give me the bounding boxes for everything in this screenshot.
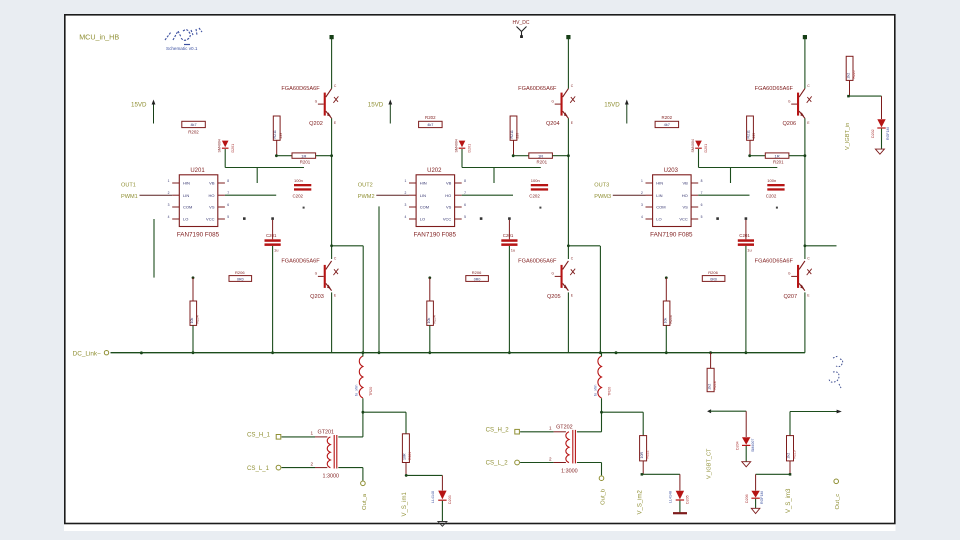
- svg-text:7: 7: [701, 191, 703, 195]
- svg-text:10k: 10k: [663, 318, 667, 324]
- svg-text:OUT1: OUT1: [121, 183, 136, 189]
- svg-text:VCC: VCC: [679, 217, 688, 222]
- svg-text:5: 5: [701, 215, 703, 219]
- svg-text:1:3000: 1:3000: [323, 474, 340, 480]
- svg-text:V_IGBT_CT: V_IGBT_CT: [706, 448, 712, 479]
- svg-text:R219: R219: [792, 450, 796, 458]
- svg-text:10k: 10k: [427, 318, 431, 324]
- svg-text:FAN7190 F085: FAN7190 F085: [177, 232, 220, 239]
- svg-text:R204: R204: [669, 315, 673, 323]
- svg-text:VS: VS: [682, 205, 688, 210]
- svg-text:V_IGBT_in: V_IGBT_in: [845, 123, 851, 150]
- svg-text:R206: R206: [472, 270, 482, 275]
- svg-text:1: 1: [310, 431, 313, 436]
- svg-text:SM4004: SM4004: [218, 139, 222, 152]
- svg-text:5: 5: [464, 215, 466, 219]
- svg-text:15VD: 15VD: [604, 102, 620, 109]
- svg-text:Out_c: Out_c: [835, 494, 841, 510]
- svg-text:C201: C201: [266, 233, 277, 238]
- svg-text:LO: LO: [420, 217, 425, 222]
- svg-text:MCU_in_HB: MCU_in_HB: [79, 33, 119, 42]
- svg-text:VB: VB: [209, 181, 215, 186]
- svg-text:CS_H_1: CS_H_1: [247, 432, 271, 439]
- svg-text:DC_Link−: DC_Link−: [73, 351, 102, 358]
- svg-text:C201: C201: [503, 233, 514, 238]
- svg-text:to_xfm: to_xfm: [593, 385, 597, 396]
- svg-text:R211: R211: [273, 130, 277, 138]
- svg-text:HIN: HIN: [420, 181, 427, 186]
- svg-text:C202: C202: [293, 193, 304, 198]
- svg-text:R201: R201: [300, 160, 311, 165]
- svg-text:FAN7190 F085: FAN7190 F085: [414, 232, 457, 239]
- svg-text:to_xfm: to_xfm: [355, 385, 359, 396]
- svg-text:SM4004: SM4004: [691, 139, 695, 152]
- svg-text:15VD: 15VD: [368, 102, 384, 109]
- svg-text:D201: D201: [468, 144, 472, 153]
- svg-text:239: 239: [516, 133, 520, 139]
- svg-text:HO: HO: [682, 193, 688, 198]
- svg-text:VCC: VCC: [206, 217, 215, 222]
- svg-text:2k2: 2k2: [846, 73, 850, 79]
- svg-text:Out_a: Out_a: [362, 493, 368, 510]
- svg-text:PWM3: PWM3: [594, 194, 611, 200]
- svg-text:1: 1: [641, 179, 643, 183]
- svg-text:2k2: 2k2: [787, 453, 791, 459]
- svg-text:8: 8: [464, 179, 466, 183]
- svg-text:3: 3: [168, 203, 170, 207]
- svg-text:COM: COM: [420, 205, 429, 210]
- svg-text:Q204: Q204: [546, 121, 560, 127]
- svg-text:1: 1: [549, 425, 552, 430]
- svg-text:10R: 10R: [403, 453, 407, 460]
- svg-text:TR20: TR20: [608, 387, 612, 396]
- svg-text:Q203: Q203: [310, 294, 324, 300]
- svg-text:8: 8: [227, 179, 229, 183]
- svg-text:R204: R204: [196, 315, 200, 323]
- svg-text:RGF1M: RGF1M: [886, 127, 890, 140]
- svg-text:SM4004: SM4004: [454, 139, 458, 152]
- svg-text:100n: 100n: [531, 178, 540, 183]
- svg-text:U203: U203: [664, 168, 679, 174]
- svg-text:Q205: Q205: [547, 294, 561, 300]
- svg-text:LIN: LIN: [183, 193, 189, 198]
- svg-text:D205: D205: [685, 495, 689, 504]
- svg-text:LL4148: LL4148: [431, 491, 435, 503]
- svg-text:0R0: 0R0: [237, 277, 244, 281]
- svg-text:D204: D204: [736, 441, 740, 450]
- svg-text:2: 2: [404, 191, 406, 195]
- svg-text:1u: 1u: [274, 247, 278, 252]
- svg-text:4: 4: [641, 215, 643, 219]
- svg-text:R202: R202: [662, 115, 673, 120]
- svg-text:RGF1M: RGF1M: [760, 491, 764, 504]
- svg-text:CS_H_2: CS_H_2: [486, 427, 510, 434]
- svg-text:U202: U202: [427, 168, 442, 174]
- svg-text:C202: C202: [529, 193, 540, 198]
- svg-text:2: 2: [549, 456, 552, 461]
- svg-text:OUT2: OUT2: [358, 183, 373, 189]
- svg-text:6: 6: [464, 203, 466, 207]
- svg-text:FAN7190 F085: FAN7190 F085: [650, 232, 693, 239]
- svg-text:FGA60D65A6F: FGA60D65A6F: [755, 259, 794, 265]
- svg-text:7: 7: [227, 191, 229, 195]
- svg-text:VS: VS: [209, 205, 215, 210]
- svg-text:6: 6: [701, 203, 703, 207]
- svg-text:V_S_im1: V_S_im1: [402, 491, 408, 516]
- svg-text:0R0: 0R0: [474, 277, 481, 281]
- svg-text:FGA60D65A6F: FGA60D65A6F: [518, 86, 557, 92]
- svg-text:C201: C201: [739, 233, 750, 238]
- svg-text:1u: 1u: [747, 247, 751, 252]
- svg-text:1R: 1R: [301, 153, 306, 158]
- svg-text:V_S_im2: V_S_im2: [638, 489, 644, 514]
- svg-text:R211: R211: [747, 130, 751, 138]
- svg-text:0R0: 0R0: [710, 277, 717, 281]
- svg-text:PWM1: PWM1: [121, 194, 138, 200]
- svg-text:LIN: LIN: [656, 193, 662, 198]
- svg-text:GT201: GT201: [318, 430, 334, 436]
- svg-text:4k7: 4k7: [427, 123, 433, 127]
- svg-text:R206: R206: [235, 270, 245, 275]
- svg-text:FGA60D65A6F: FGA60D65A6F: [755, 86, 794, 92]
- svg-text:VB: VB: [446, 181, 452, 186]
- svg-text:TR20: TR20: [369, 387, 373, 396]
- svg-text:10k: 10k: [190, 318, 194, 324]
- svg-text:Q207: Q207: [783, 294, 797, 300]
- svg-text:1u: 1u: [511, 247, 515, 252]
- svg-text:8: 8: [701, 179, 703, 183]
- svg-text:R202: R202: [188, 130, 199, 135]
- svg-text:100n: 100n: [294, 178, 303, 183]
- svg-text:FGA60D65A6F: FGA60D65A6F: [281, 86, 320, 92]
- svg-text:COM: COM: [183, 205, 192, 210]
- svg-text:10R: 10R: [640, 452, 644, 459]
- svg-text:R221: R221: [408, 452, 412, 460]
- svg-text:R204: R204: [432, 315, 436, 323]
- svg-text:LL4148: LL4148: [669, 491, 673, 503]
- svg-text:CS_L_2: CS_L_2: [486, 460, 509, 467]
- svg-text:15VD: 15VD: [131, 102, 147, 109]
- svg-text:R201: R201: [773, 160, 784, 165]
- svg-text:D206: D206: [745, 494, 749, 503]
- svg-text:SM4007: SM4007: [751, 439, 755, 452]
- svg-text:R206: R206: [708, 270, 718, 275]
- svg-text:HO: HO: [209, 193, 215, 198]
- svg-text:C202: C202: [766, 193, 777, 198]
- svg-text:3: 3: [404, 203, 406, 207]
- svg-text:D202: D202: [871, 129, 875, 138]
- svg-text:2: 2: [641, 191, 643, 195]
- svg-text:FGA60D65A6F: FGA60D65A6F: [518, 259, 557, 265]
- svg-text:OUT3: OUT3: [594, 183, 609, 189]
- svg-text:R202: R202: [425, 115, 436, 120]
- svg-text:Schematic v0.1: Schematic v0.1: [166, 46, 198, 51]
- svg-text:1R: 1R: [538, 153, 543, 158]
- svg-text:VS: VS: [446, 205, 452, 210]
- svg-text:Out_b: Out_b: [600, 488, 606, 505]
- svg-text:1: 1: [404, 179, 406, 183]
- svg-text:Q202: Q202: [309, 121, 323, 127]
- svg-text:3: 3: [641, 203, 643, 207]
- svg-text:2k2: 2k2: [707, 384, 711, 390]
- svg-text:4k7: 4k7: [190, 123, 196, 127]
- svg-text:VB: VB: [682, 181, 688, 186]
- svg-text:CS_L_1: CS_L_1: [247, 465, 270, 472]
- svg-text:D203: D203: [448, 495, 452, 504]
- svg-text:U201: U201: [190, 168, 205, 174]
- svg-text:4: 4: [168, 215, 170, 219]
- svg-text:D201: D201: [704, 144, 708, 153]
- svg-text:R201: R201: [537, 160, 548, 165]
- svg-text:COM: COM: [656, 205, 665, 210]
- svg-text:LO: LO: [183, 217, 188, 222]
- svg-text:4k7: 4k7: [664, 123, 670, 127]
- svg-text:239: 239: [752, 133, 756, 139]
- svg-text:D201: D201: [231, 144, 235, 153]
- svg-text:2: 2: [168, 191, 170, 195]
- svg-text:4: 4: [404, 215, 406, 219]
- svg-text:HV_DC: HV_DC: [513, 20, 530, 26]
- svg-text:V_S_im3: V_S_im3: [786, 488, 792, 513]
- svg-text:PWM2: PWM2: [358, 194, 375, 200]
- svg-text:VCC: VCC: [443, 217, 452, 222]
- svg-text:LIN: LIN: [420, 193, 426, 198]
- svg-text:1: 1: [168, 179, 170, 183]
- svg-text:R222: R222: [645, 450, 649, 458]
- svg-text:HIN: HIN: [656, 181, 663, 186]
- svg-text:Q206: Q206: [782, 121, 796, 127]
- svg-text:R218: R218: [713, 381, 717, 389]
- svg-text:FGA60D65A6F: FGA60D65A6F: [281, 259, 320, 265]
- svg-text:239: 239: [279, 133, 283, 139]
- svg-text:6: 6: [227, 203, 229, 207]
- svg-text:R220: R220: [852, 70, 856, 78]
- svg-text:5: 5: [227, 215, 229, 219]
- svg-text:1:3000: 1:3000: [561, 469, 578, 475]
- svg-text:100n: 100n: [767, 178, 776, 183]
- svg-text:HO: HO: [445, 193, 451, 198]
- svg-text:LO: LO: [656, 217, 661, 222]
- svg-text:2: 2: [310, 461, 313, 466]
- svg-text:GT202: GT202: [556, 425, 572, 431]
- svg-text:7: 7: [464, 191, 466, 195]
- svg-text:HIN: HIN: [183, 181, 190, 186]
- svg-text:1R: 1R: [775, 153, 780, 158]
- svg-text:R211: R211: [510, 130, 514, 138]
